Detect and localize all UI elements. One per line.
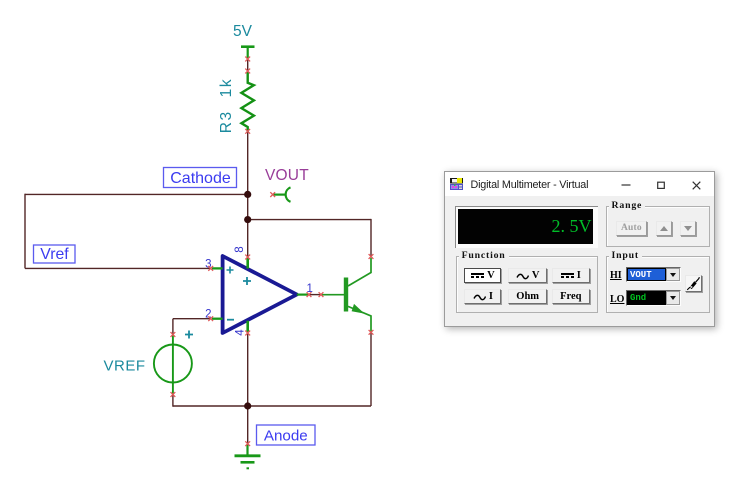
- wire vref vertical: [172, 319, 174, 335]
- pin 8 lead: [246, 258, 249, 269]
- resistor R3: [241, 72, 254, 132]
- pin 3 lead: [212, 267, 223, 269]
- source VREF lead line: [172, 335, 174, 394]
- pin marker VREF plus: [171, 332, 176, 337]
- wire pin1 to base: [310, 294, 320, 296]
- button Auto (disabled): [616, 221, 647, 236]
- pin marker R3 pin 1: [245, 69, 250, 74]
- combo LO Gnd: [626, 290, 681, 306]
- title bar: [445, 172, 714, 196]
- wire vref source to pin 2: [173, 318, 211, 320]
- combo HI VOUT: [626, 267, 681, 283]
- svg-text:Anode: Anode: [264, 428, 308, 445]
- wire left vertical: [24, 194, 26, 269]
- junction anode: [244, 402, 251, 409]
- svg-text:Cathode: Cathode: [170, 170, 231, 187]
- Function group: [456, 256, 598, 313]
- pin 1 lead: [297, 294, 308, 296]
- transistor emitter arrow: [352, 304, 365, 314]
- net label Cathode: [164, 168, 237, 188]
- button AC V: [508, 268, 547, 283]
- minimize button: [621, 172, 631, 196]
- junction cathode: [244, 191, 251, 198]
- pin marker Q1 collector: [369, 254, 374, 259]
- window title: [471, 179, 589, 191]
- button DC V: [464, 268, 501, 283]
- wire collector vertical: [370, 219, 372, 257]
- button Ohm: [508, 289, 547, 304]
- svg-text:8: 8: [234, 246, 246, 252]
- op-amp U1: [223, 256, 297, 333]
- pin marker op-amp pin 1: [307, 292, 312, 297]
- svg-text:4: 4: [235, 329, 247, 336]
- button Freq: [552, 289, 590, 304]
- svg-text:VOUT: VOUT: [265, 167, 309, 184]
- pin marker ground: [245, 441, 250, 446]
- transistor emitter: [348, 306, 371, 331]
- window icon: [450, 178, 463, 190]
- transistor base lead: [322, 294, 344, 296]
- pin marker op-amp pin 3: [208, 266, 213, 271]
- probe button: [685, 275, 702, 292]
- button AC I: [464, 289, 501, 304]
- button DC I: [552, 268, 590, 283]
- junction collector branch: [244, 216, 251, 223]
- svg-text:5V: 5V: [233, 23, 253, 40]
- wire cathode left: [25, 193, 248, 195]
- button range down (disabled): [680, 221, 696, 236]
- pin marker op-amp pin 2: [208, 316, 213, 321]
- multimeter window: [444, 171, 715, 327]
- wire anode to ground: [247, 406, 249, 444]
- label LO: [610, 294, 624, 305]
- pin marker R3 pin 2: [245, 129, 250, 134]
- pin 2 lead: [212, 318, 223, 320]
- transistor collector: [348, 258, 371, 286]
- ground: [235, 445, 261, 469]
- wire bottom horizontal: [173, 405, 371, 407]
- svg-text:R3 1k: R3 1k: [218, 78, 235, 134]
- close button: [692, 172, 701, 196]
- terminal VOUT: [274, 187, 291, 201]
- Input group: [606, 256, 710, 313]
- pin marker op-amp pin 4: [245, 331, 250, 336]
- op-amp plus input mark: [227, 267, 234, 274]
- pin marker power 5V: [245, 57, 250, 62]
- button range up (disabled): [656, 221, 672, 236]
- net label Anode: [257, 425, 316, 445]
- pin marker op-amp pin 8: [245, 255, 250, 260]
- label HI: [610, 270, 622, 281]
- source VREF circle: [154, 345, 192, 383]
- wire cathode to collector: [248, 219, 371, 221]
- wire vref bottom: [172, 395, 174, 407]
- op-amp minus input mark: [227, 319, 234, 321]
- op-amp plus center mark: [243, 277, 251, 285]
- wire to pin 3: [25, 267, 211, 269]
- wire power to R3: [247, 59, 249, 71]
- pin marker VREF minus: [171, 392, 176, 397]
- pin marker Q1 base: [319, 292, 324, 297]
- net label Vref: [34, 245, 76, 263]
- pin 4 lead: [246, 321, 249, 333]
- pin marker Q1 emitter: [369, 330, 374, 335]
- wire R3 to cathode node: [247, 131, 249, 257]
- transistor Q1 base bar: [344, 278, 348, 312]
- wire pin 4 to anode: [247, 333, 249, 406]
- pin marker terminal VOUT: [270, 192, 275, 197]
- LCD display panel: [455, 206, 598, 249]
- reading 2.5V: [458, 209, 594, 245]
- svg-text:VREF: VREF: [104, 358, 146, 375]
- Range group: [606, 206, 710, 247]
- wire emitter vertical: [370, 332, 372, 406]
- source VREF plus mark: [185, 331, 193, 339]
- svg-text:Vref: Vref: [40, 246, 69, 263]
- maximize button: [657, 172, 665, 196]
- power symbol 5V: [241, 47, 255, 58]
